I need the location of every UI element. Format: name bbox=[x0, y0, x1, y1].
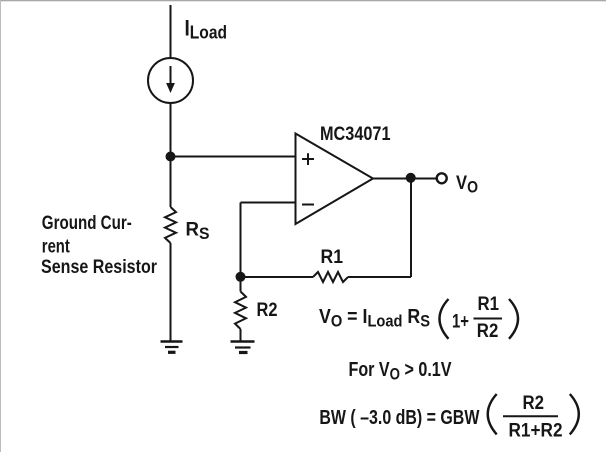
svg-text:MC34071: MC34071 bbox=[320, 124, 391, 145]
svg-text:R1: R1 bbox=[478, 294, 500, 315]
svg-text:R1+R2: R1+R2 bbox=[509, 420, 563, 441]
svg-text:R2: R2 bbox=[477, 321, 499, 342]
svg-text:R2: R2 bbox=[523, 393, 545, 414]
svg-text:BW ( –3.0 dB) = GBW: BW ( –3.0 dB) = GBW bbox=[319, 407, 479, 429]
svg-text:For VO > 0.1V: For VO > 0.1V bbox=[349, 359, 453, 384]
svg-text:Sense Resistor: Sense Resistor bbox=[41, 257, 158, 278]
svg-text:R2: R2 bbox=[257, 299, 278, 321]
svg-text:R1: R1 bbox=[321, 246, 344, 268]
svg-text:Ground Cur-: Ground Cur- bbox=[42, 213, 132, 234]
svg-text:1+: 1+ bbox=[452, 311, 469, 333]
svg-text:rent: rent bbox=[42, 237, 71, 258]
